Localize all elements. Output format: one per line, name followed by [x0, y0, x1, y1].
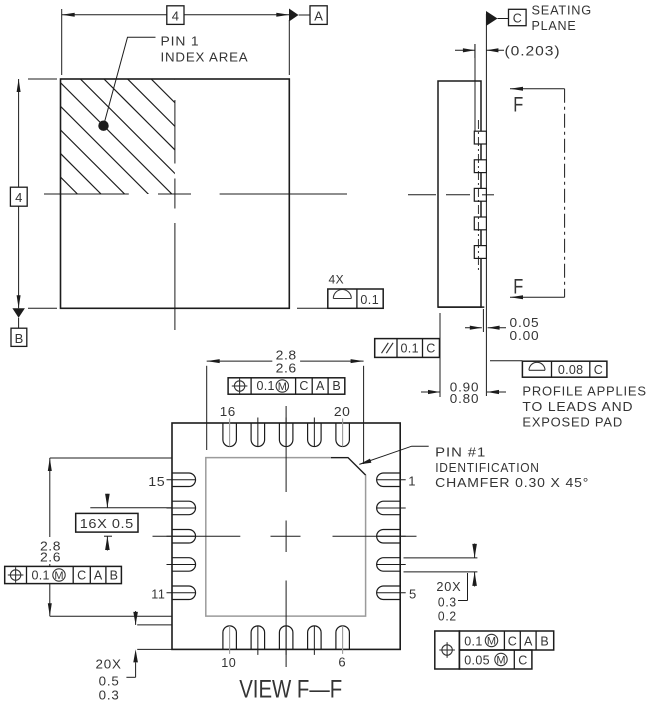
svg-text:C: C [299, 379, 308, 393]
svg-text:C: C [508, 635, 517, 649]
svg-text:IDENTIFICATION: IDENTIFICATION [435, 460, 540, 475]
svg-text:15: 15 [148, 474, 165, 489]
svg-text:B: B [540, 635, 548, 649]
svg-text:TO LEADS AND: TO LEADS AND [522, 399, 633, 414]
svg-text:(0.203): (0.203) [505, 43, 561, 58]
svg-text:C: C [77, 568, 86, 582]
svg-text:0.80: 0.80 [450, 391, 480, 406]
svg-text:F: F [513, 94, 523, 117]
svg-text:PIN #1: PIN #1 [435, 444, 486, 459]
svg-text:B: B [110, 568, 118, 582]
svg-text:A: A [314, 8, 323, 23]
svg-text:5: 5 [409, 586, 417, 601]
svg-text:VIEW F—F: VIEW F—F [239, 675, 342, 703]
svg-text:0.1: 0.1 [257, 379, 275, 393]
svg-text:EXPOSED PAD: EXPOSED PAD [522, 414, 623, 429]
svg-text:PIN 1: PIN 1 [161, 33, 200, 48]
svg-text:C: C [518, 654, 527, 668]
svg-text:A: A [524, 635, 533, 649]
svg-text:6: 6 [338, 654, 346, 669]
svg-text:0.00: 0.00 [510, 328, 540, 343]
svg-text:16X 0.5: 16X 0.5 [80, 516, 134, 531]
svg-text:SEATING: SEATING [532, 2, 593, 17]
svg-text:0.05: 0.05 [464, 654, 490, 668]
svg-text:B: B [332, 379, 340, 393]
svg-text:20X: 20X [96, 657, 122, 672]
svg-text:4: 4 [172, 8, 179, 23]
svg-text:0.5: 0.5 [99, 673, 120, 688]
svg-text:PROFILE APPLIES: PROFILE APPLIES [522, 384, 646, 399]
svg-text:10: 10 [221, 655, 236, 670]
svg-text:2.6: 2.6 [40, 550, 61, 565]
svg-text:0.3: 0.3 [99, 687, 120, 702]
svg-text:0.3: 0.3 [438, 595, 457, 610]
svg-text:C: C [594, 363, 603, 377]
svg-text:0.08: 0.08 [558, 363, 584, 377]
svg-text:0.1: 0.1 [464, 635, 482, 649]
svg-text:20X: 20X [436, 579, 461, 594]
svg-text:1: 1 [408, 474, 416, 489]
svg-text:M: M [278, 381, 287, 393]
svg-text:INDEX AREA: INDEX AREA [161, 49, 249, 64]
svg-text:C: C [513, 11, 522, 25]
svg-text:PLANE: PLANE [532, 18, 577, 33]
svg-text:4: 4 [15, 190, 22, 205]
svg-text:0.1: 0.1 [32, 568, 50, 582]
svg-text:M: M [54, 570, 63, 582]
svg-text:M: M [496, 654, 505, 666]
svg-text:2.6: 2.6 [276, 360, 297, 375]
svg-text:16: 16 [220, 404, 236, 419]
svg-text:B: B [15, 331, 24, 346]
svg-text:0.2: 0.2 [438, 609, 457, 624]
svg-text:CHAMFER 0.30 X 45°: CHAMFER 0.30 X 45° [435, 475, 589, 490]
svg-text:11: 11 [151, 587, 165, 602]
svg-text:20: 20 [334, 404, 351, 419]
svg-text:0.1: 0.1 [360, 293, 379, 307]
svg-text:F: F [513, 276, 523, 299]
svg-text:C: C [426, 342, 435, 356]
svg-text:0.1: 0.1 [401, 342, 419, 356]
svg-text:4X: 4X [329, 273, 345, 287]
svg-text:A: A [316, 379, 325, 393]
svg-text:M: M [487, 635, 496, 647]
svg-text:A: A [94, 568, 103, 582]
